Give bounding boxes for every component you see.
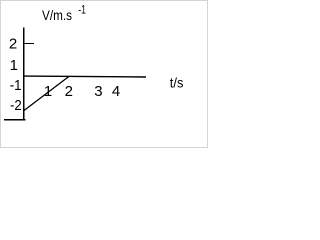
svg-text:4: 4 [112,83,120,100]
svg-text:t/s: t/s [170,75,184,91]
svg-text:1: 1 [10,57,18,74]
tick at value 2 [24,43,34,44]
svg-text:3: 3 [94,83,102,100]
velocity line (diagonal) [24,76,70,111]
svg-text:-1: -1 [78,5,86,17]
svg-text:V/m.s: V/m.s [42,7,72,23]
bottom bar under label column [4,119,26,120]
V axis vertical line [23,27,24,120]
canvas border [1,1,208,148]
svg-text:2: 2 [65,83,73,100]
t axis horizontal line [23,75,146,78]
svg-text:2: 2 [9,35,17,52]
svg-text:-2: -2 [10,97,22,114]
svg-text:-1: -1 [10,77,22,94]
